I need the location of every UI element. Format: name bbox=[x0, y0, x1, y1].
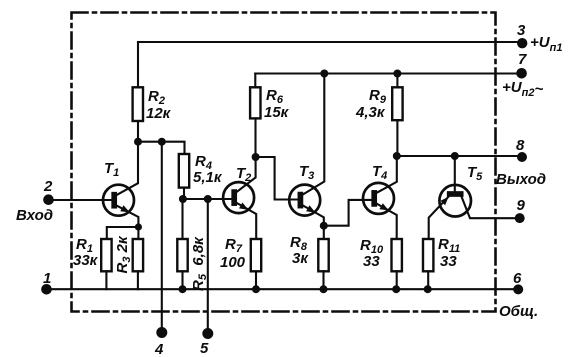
svg-text:Общ.: Общ. bbox=[499, 303, 538, 320]
svg-text:Выход: Выход bbox=[496, 171, 546, 188]
svg-text:2: 2 bbox=[43, 178, 53, 195]
svg-text:+Uп1: +Uп1 bbox=[530, 34, 562, 54]
svg-text:5,1к: 5,1к bbox=[193, 169, 223, 186]
svg-text:3: 3 bbox=[517, 22, 526, 39]
svg-text:T1: T1 bbox=[104, 160, 119, 179]
svg-text:33: 33 bbox=[363, 253, 380, 270]
svg-text:5: 5 bbox=[200, 340, 209, 357]
svg-text:8: 8 bbox=[516, 137, 525, 154]
svg-text:T4: T4 bbox=[372, 163, 387, 182]
svg-text:33к: 33к bbox=[73, 252, 99, 269]
svg-text:15к: 15к bbox=[264, 104, 290, 121]
svg-text:6: 6 bbox=[513, 270, 522, 287]
svg-text:7: 7 bbox=[518, 51, 527, 68]
svg-text:R5 6,8к: R5 6,8к bbox=[190, 236, 209, 291]
svg-text:9: 9 bbox=[517, 197, 526, 214]
svg-text:T5: T5 bbox=[467, 164, 483, 183]
svg-text:R7: R7 bbox=[225, 236, 243, 255]
svg-text:100: 100 bbox=[220, 254, 246, 271]
svg-text:4,3к: 4,3к bbox=[355, 104, 386, 121]
svg-text:T3: T3 bbox=[299, 163, 314, 182]
svg-text:33: 33 bbox=[440, 253, 457, 270]
svg-text:4: 4 bbox=[154, 341, 164, 357]
svg-text:1: 1 bbox=[43, 270, 51, 287]
svg-text:12к: 12к bbox=[146, 105, 172, 122]
svg-text:R3 2к: R3 2к bbox=[114, 235, 133, 273]
svg-text:Вход: Вход bbox=[16, 207, 53, 224]
svg-text:T2: T2 bbox=[236, 165, 251, 184]
svg-text:+Uп2~: +Uп2~ bbox=[502, 79, 543, 99]
svg-text:3к: 3к bbox=[292, 250, 309, 267]
